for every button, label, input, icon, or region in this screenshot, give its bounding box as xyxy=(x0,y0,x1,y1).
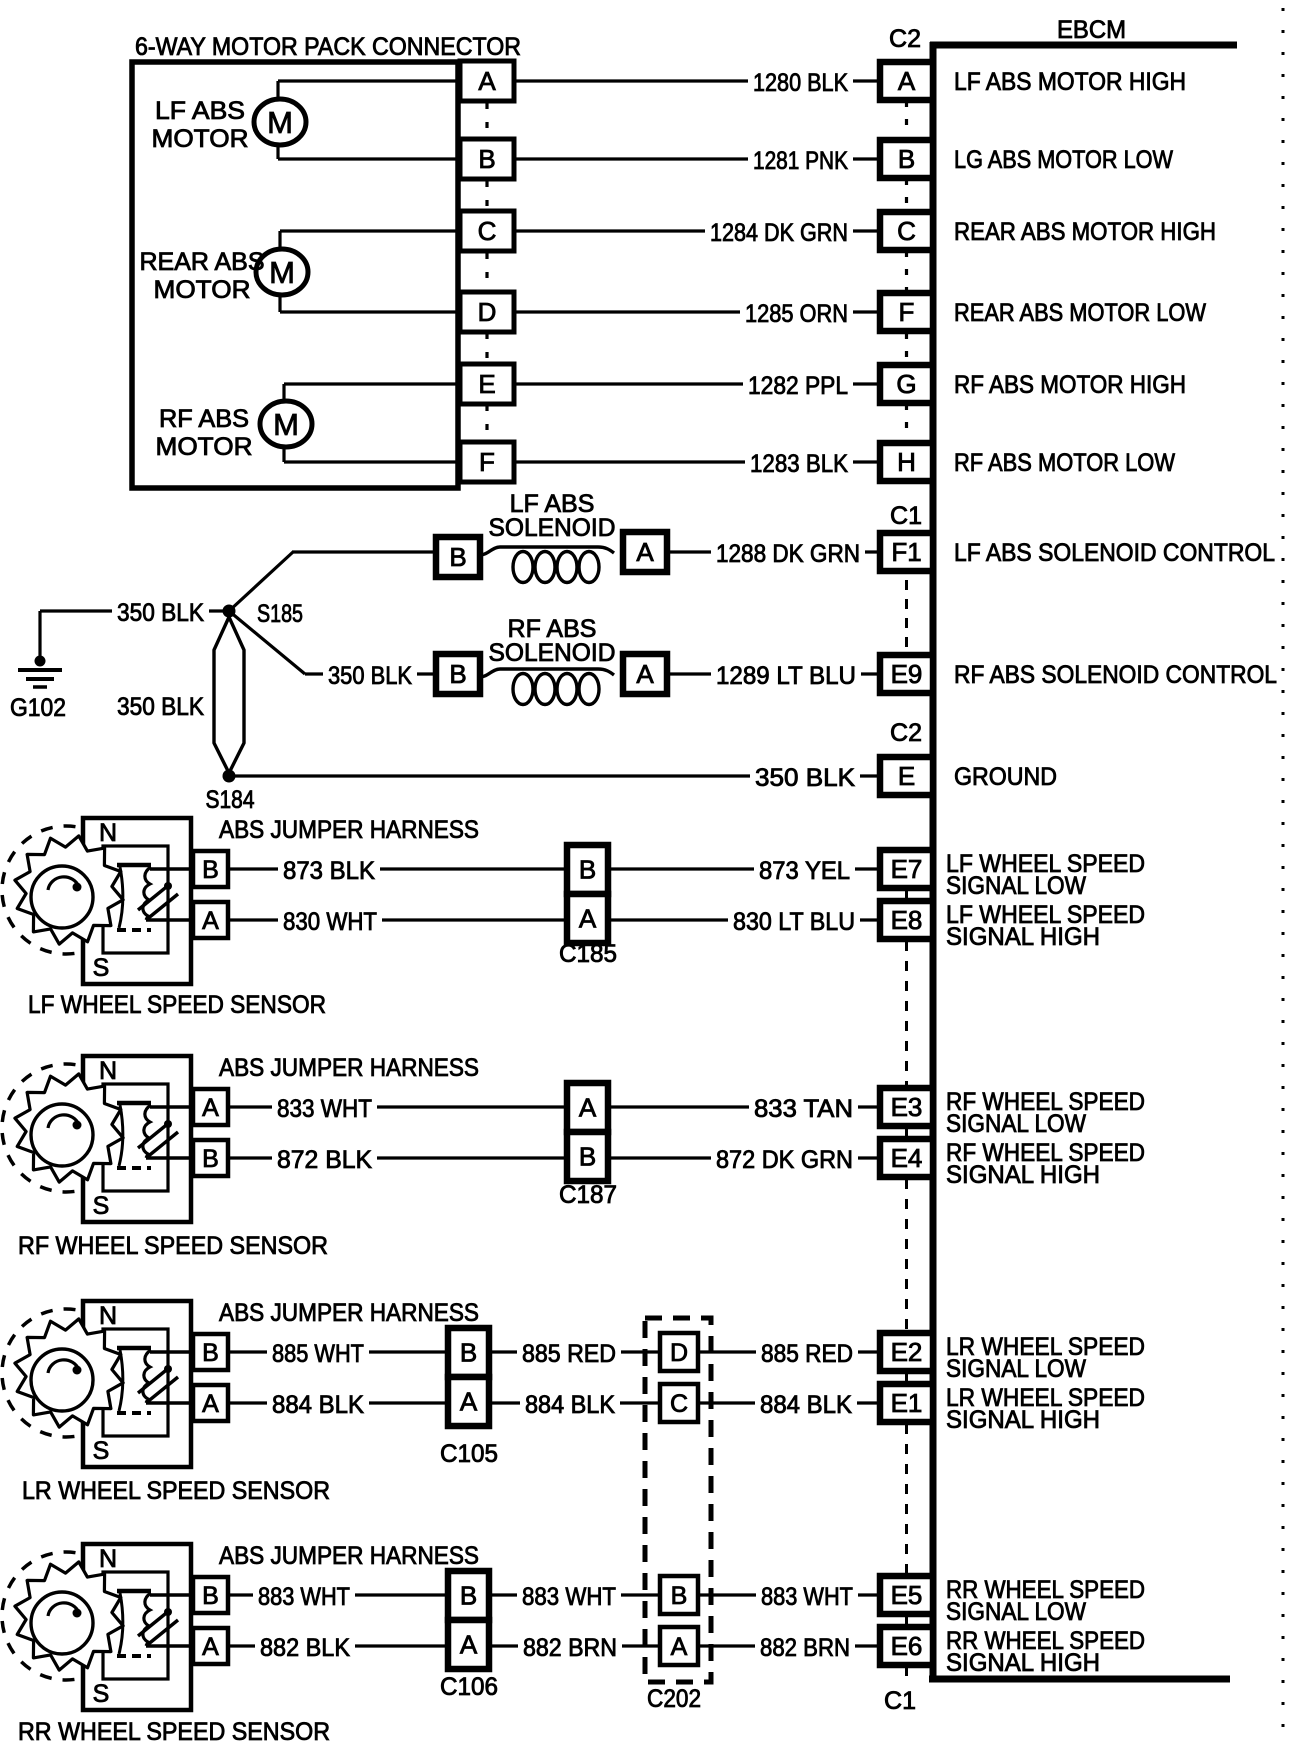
wire 1281 PNK xyxy=(514,147,880,175)
wire motor M3 high xyxy=(284,384,460,402)
wire 873 BLK (LF sensor to C185) xyxy=(228,857,567,885)
svg-text:E6: E6 xyxy=(891,1631,923,1661)
svg-text:883 WHT: 883 WHT xyxy=(258,1583,350,1611)
RR wheel speed sensor xyxy=(2,1544,196,1710)
EBCM pin H xyxy=(880,443,933,481)
svg-text:B: B xyxy=(202,1339,219,1367)
svg-text:884 BLK: 884 BLK xyxy=(272,1391,364,1419)
wire 882 BLK (RR sensor to C106) xyxy=(228,1634,448,1662)
svg-text:SIGNAL HIGH: SIGNAL HIGH xyxy=(946,923,1100,951)
connector C202 dashed outline xyxy=(645,1318,711,1713)
svg-text:SOLENOID: SOLENOID xyxy=(489,514,616,542)
svg-text:1281 PNK: 1281 PNK xyxy=(753,147,848,175)
wire motor M3 low xyxy=(284,446,460,462)
svg-text:REAR ABS: REAR ABS xyxy=(140,248,265,276)
svg-text:B: B xyxy=(202,1145,219,1173)
label RF WHEEL SPEED SIGNAL HIGH xyxy=(946,1139,1145,1189)
label LG ABS MOTOR LOW xyxy=(954,146,1173,174)
svg-text:C2: C2 xyxy=(889,25,921,53)
label LR WHEEL SPEED SENSOR xyxy=(22,1477,330,1505)
svg-text:RF ABS MOTOR LOW: RF ABS MOTOR LOW xyxy=(954,449,1175,477)
svg-text:A: A xyxy=(202,1094,219,1122)
motor M1 LF ABS xyxy=(254,99,306,145)
LF solenoid terminal A xyxy=(623,532,667,572)
svg-text:ABS JUMPER HARNESS: ABS JUMPER HARNESS xyxy=(219,1542,479,1570)
LF ABS solenoid label xyxy=(489,490,616,542)
EBCM pin E8 xyxy=(880,901,933,939)
svg-text:C106: C106 xyxy=(440,1673,498,1701)
dashed separator F1-E9 xyxy=(905,580,908,651)
wire 873 YEL (C185 to EBCM) xyxy=(608,857,880,885)
dashed separator EBCM C2 pins xyxy=(905,101,908,443)
LF wheel speed sensor xyxy=(2,818,196,984)
RF ABS solenoid label xyxy=(489,615,616,667)
connector C202 terminal C xyxy=(660,1384,698,1422)
svg-text:1282 PPL: 1282 PPL xyxy=(748,372,848,400)
wire 872 DK GRN (C187 to EBCM) xyxy=(608,1146,880,1174)
svg-text:B: B xyxy=(449,659,466,689)
EBCM pin E2 xyxy=(880,1333,933,1371)
svg-text:REAR ABS MOTOR HIGH: REAR ABS MOTOR HIGH xyxy=(954,218,1216,246)
LF sensor terminal B xyxy=(193,851,228,887)
svg-text:SIGNAL HIGH: SIGNAL HIGH xyxy=(946,1649,1100,1677)
connector C185 terminal A xyxy=(567,894,608,943)
motor M3 RF ABS xyxy=(260,401,312,447)
svg-text:RF ABS: RF ABS xyxy=(159,405,249,433)
connector C202 terminal B xyxy=(660,1576,698,1614)
svg-text:C1: C1 xyxy=(884,1687,916,1715)
svg-text:872 BLK: 872 BLK xyxy=(277,1146,372,1174)
svg-text:M: M xyxy=(267,105,293,140)
RF ABS jumper harness label xyxy=(219,1054,479,1082)
svg-text:S: S xyxy=(93,1680,110,1708)
svg-text:C105: C105 xyxy=(440,1440,498,1468)
label REAR ABS MOTOR HIGH xyxy=(954,218,1216,246)
svg-text:E4: E4 xyxy=(891,1143,923,1173)
wire 1288 DK GRN xyxy=(667,540,880,568)
svg-text:1284 DK GRN: 1284 DK GRN xyxy=(710,219,848,247)
EBCM pin E5 xyxy=(880,1576,933,1614)
svg-text:E: E xyxy=(478,369,495,399)
svg-text:A: A xyxy=(579,904,597,934)
connector C187 terminal A xyxy=(567,1083,608,1132)
svg-text:873 BLK: 873 BLK xyxy=(283,857,375,885)
LR ABS jumper harness label xyxy=(219,1299,479,1327)
svg-text:882 BRN: 882 BRN xyxy=(523,1634,617,1662)
wire 1289 LT BLU xyxy=(667,662,880,690)
EBCM pin G xyxy=(880,365,933,403)
svg-text:S: S xyxy=(93,1192,110,1220)
motor pack connector pin D xyxy=(460,292,514,332)
dotted page margin line xyxy=(1282,8,1285,1745)
svg-text:A: A xyxy=(636,659,654,689)
svg-text:SIGNAL LOW: SIGNAL LOW xyxy=(946,1598,1086,1626)
svg-text:1283 BLK: 1283 BLK xyxy=(750,450,848,478)
wire 884 BLK (LR sensor to C105) xyxy=(228,1391,448,1419)
svg-text:F1: F1 xyxy=(891,537,921,567)
wire 833 TAN (C187 to EBCM) xyxy=(608,1095,880,1123)
label REAR ABS MOTOR LOW xyxy=(954,299,1206,327)
LR sensor label S xyxy=(93,1437,110,1465)
RF ABS solenoid coil xyxy=(480,669,614,705)
harness loop 350 BLK xyxy=(112,617,244,773)
LF sensor label N xyxy=(99,819,117,847)
motor pack connector pin F xyxy=(460,442,514,482)
svg-text:882 BRN: 882 BRN xyxy=(760,1634,850,1662)
RF solenoid terminal B xyxy=(436,654,480,694)
wire S185 to LF solenoid xyxy=(229,552,436,611)
wire 1284 DK GRN xyxy=(514,219,880,247)
RR ABS jumper harness label xyxy=(219,1542,479,1570)
wire 830 WHT (LF sensor to C185) xyxy=(228,908,567,936)
svg-text:LG ABS MOTOR LOW: LG ABS MOTOR LOW xyxy=(954,146,1173,174)
svg-text:RF WHEEL SPEED SENSOR: RF WHEEL SPEED SENSOR xyxy=(18,1232,328,1260)
svg-text:B: B xyxy=(460,1338,477,1368)
label LF WHEEL SPEED SIGNAL HIGH xyxy=(946,901,1145,951)
svg-text:1280 BLK: 1280 BLK xyxy=(753,69,848,97)
svg-text:350 BLK: 350 BLK xyxy=(755,764,855,792)
svg-text:MOTOR: MOTOR xyxy=(152,125,249,153)
svg-text:C: C xyxy=(670,1390,688,1418)
EBCM C1 connector label (bottom) xyxy=(884,1687,916,1715)
wire 883 WHT (RR sensor to C106) xyxy=(228,1583,448,1611)
RF sensor terminal B xyxy=(193,1140,228,1176)
wire motor M2 high xyxy=(280,231,460,250)
connector C106 terminal A xyxy=(448,1620,489,1669)
LF sensor terminal A xyxy=(193,902,228,938)
svg-text:E9: E9 xyxy=(891,659,923,689)
svg-text:SIGNAL HIGH: SIGNAL HIGH xyxy=(946,1161,1100,1189)
svg-text:833 WHT: 833 WHT xyxy=(277,1095,372,1123)
EBCM pin F xyxy=(880,293,933,331)
connector C105 terminal A xyxy=(448,1377,489,1426)
EBCM label xyxy=(1057,16,1126,44)
svg-text:LF ABS SOLENOID CONTROL: LF ABS SOLENOID CONTROL xyxy=(954,539,1275,567)
motor M2 REAR ABS xyxy=(256,249,308,295)
motor pack connector pin B xyxy=(460,139,514,179)
wire 872 BLK (RF sensor to C187) xyxy=(228,1146,567,1174)
svg-text:E1: E1 xyxy=(891,1388,923,1418)
svg-text:883 WHT: 883 WHT xyxy=(761,1583,853,1611)
label LR WHEEL SPEED SIGNAL HIGH xyxy=(946,1384,1145,1434)
motor M1 LF ABS MOTOR label xyxy=(152,97,249,153)
svg-text:830 LT BLU: 830 LT BLU xyxy=(733,908,855,936)
wire 833 WHT (RF sensor to C187) xyxy=(228,1095,567,1123)
svg-text:N: N xyxy=(99,1057,117,1085)
svg-text:SOLENOID: SOLENOID xyxy=(489,639,616,667)
svg-text:LF ABS: LF ABS xyxy=(155,97,245,125)
svg-text:N: N xyxy=(99,1302,117,1330)
svg-text:S: S xyxy=(93,1437,110,1465)
svg-text:B: B xyxy=(671,1582,688,1610)
EBCM pin A xyxy=(880,62,933,100)
svg-text:LF ABS MOTOR HIGH: LF ABS MOTOR HIGH xyxy=(954,68,1186,96)
dashed separator left connector pins xyxy=(485,103,488,441)
svg-text:B: B xyxy=(579,855,596,885)
wire 1283 BLK xyxy=(514,450,880,478)
svg-text:A: A xyxy=(579,1093,597,1123)
svg-text:872 DK GRN: 872 DK GRN xyxy=(716,1146,853,1174)
label RF WHEEL SPEED SIGNAL LOW xyxy=(946,1088,1145,1138)
svg-text:SIGNAL HIGH: SIGNAL HIGH xyxy=(946,1406,1100,1434)
svg-text:C185: C185 xyxy=(559,940,617,968)
svg-text:1289 LT BLU: 1289 LT BLU xyxy=(716,662,856,690)
svg-text:S184: S184 xyxy=(206,786,255,814)
wire 884 BLK (C202 to EBCM) xyxy=(698,1391,880,1419)
splice S185 xyxy=(223,600,304,628)
svg-text:G: G xyxy=(896,369,916,399)
svg-text:A: A xyxy=(636,537,654,567)
svg-text:350 BLK: 350 BLK xyxy=(328,662,412,690)
svg-text:B: B xyxy=(460,1581,477,1611)
svg-text:D: D xyxy=(670,1339,688,1367)
svg-text:883 WHT: 883 WHT xyxy=(522,1583,616,1611)
LF sensor label S xyxy=(93,954,110,982)
wire 883 WHT (C106 to C202) xyxy=(489,1583,660,1611)
label LF WHEEL SPEED SENSOR xyxy=(28,991,326,1019)
label GROUND xyxy=(954,763,1057,791)
svg-text:MOTOR: MOTOR xyxy=(154,276,251,304)
svg-text:A: A xyxy=(478,66,496,96)
LR sensor terminal B xyxy=(193,1334,228,1370)
EBCM pin B xyxy=(880,140,933,178)
svg-text:B: B xyxy=(478,144,495,174)
svg-text:A: A xyxy=(202,1633,219,1661)
wire 885 WHT (LR sensor to C105) xyxy=(228,1340,448,1368)
wire S185 to RF solenoid 350 BLK xyxy=(229,611,436,690)
svg-text:873 YEL: 873 YEL xyxy=(759,857,850,885)
motor pack connector pin A xyxy=(460,61,514,101)
svg-text:ABS JUMPER HARNESS: ABS JUMPER HARNESS xyxy=(219,1299,479,1327)
RF solenoid terminal A xyxy=(623,654,667,694)
connector C185 label xyxy=(559,940,617,968)
svg-text:C187: C187 xyxy=(559,1181,617,1209)
EBCM pin C xyxy=(880,212,933,250)
svg-text:RF ABS SOLENOID CONTROL: RF ABS SOLENOID CONTROL xyxy=(954,661,1277,689)
svg-text:M: M xyxy=(269,255,295,290)
splice S184 xyxy=(206,770,255,815)
svg-text:SIGNAL LOW: SIGNAL LOW xyxy=(946,872,1086,900)
svg-text:G102: G102 xyxy=(10,694,66,722)
svg-text:B: B xyxy=(202,1582,219,1610)
RR sensor terminal A xyxy=(193,1628,228,1664)
wire 883 WHT (C202 to EBCM) xyxy=(698,1583,880,1611)
svg-text:884 BLK: 884 BLK xyxy=(525,1391,615,1419)
connector C202 terminal A xyxy=(660,1627,698,1665)
svg-text:GROUND: GROUND xyxy=(954,763,1057,791)
ground G102 xyxy=(10,656,66,723)
RF sensor terminal A xyxy=(193,1089,228,1125)
svg-text:A: A xyxy=(202,907,219,935)
svg-text:E: E xyxy=(898,761,915,791)
wire 830 LT BLU (C185 to EBCM) xyxy=(608,908,880,936)
svg-text:885 WHT: 885 WHT xyxy=(272,1340,364,1368)
LF ABS solenoid coil xyxy=(480,547,614,583)
wire 350 BLK ground to EBCM xyxy=(229,764,880,792)
svg-text:M: M xyxy=(273,407,299,442)
wire 885 RED (C105 to C202) xyxy=(489,1340,660,1368)
connector C202 terminal D xyxy=(660,1333,698,1371)
connector C187 label xyxy=(559,1181,617,1209)
connector C185 terminal B xyxy=(567,845,608,894)
label RR WHEEL SPEED SIGNAL LOW xyxy=(946,1576,1145,1626)
svg-text:SIGNAL LOW: SIGNAL LOW xyxy=(946,1355,1086,1383)
EBCM pin E9 xyxy=(880,655,933,693)
svg-text:350 BLK: 350 BLK xyxy=(117,599,204,627)
EBCM pin E6 xyxy=(880,1627,933,1665)
EBCM pin F1 xyxy=(880,533,933,571)
RF sensor label N xyxy=(99,1057,117,1085)
svg-text:E8: E8 xyxy=(891,905,923,935)
svg-text:E2: E2 xyxy=(891,1337,923,1367)
wire 882 BRN (C202 to EBCM) xyxy=(698,1634,880,1662)
EBCM pin E1 xyxy=(880,1384,933,1422)
RR sensor label S xyxy=(93,1680,110,1708)
label RR WHEEL SPEED SENSOR xyxy=(18,1718,330,1746)
svg-text:MOTOR: MOTOR xyxy=(156,433,253,461)
LR wheel speed sensor xyxy=(2,1301,196,1467)
svg-text:1288 DK GRN: 1288 DK GRN xyxy=(716,540,860,568)
svg-text:H: H xyxy=(897,447,916,477)
LR sensor label N xyxy=(99,1302,117,1330)
svg-text:E7: E7 xyxy=(891,854,923,884)
svg-text:833 TAN: 833 TAN xyxy=(754,1095,853,1123)
wire motor M2 low xyxy=(280,294,460,312)
LF ABS jumper harness label xyxy=(219,816,479,844)
wire motor M1 low xyxy=(278,144,460,159)
RR sensor label N xyxy=(99,1545,117,1573)
svg-text:ABS JUMPER HARNESS: ABS JUMPER HARNESS xyxy=(219,1054,479,1082)
svg-text:RR WHEEL SPEED SENSOR: RR WHEEL SPEED SENSOR xyxy=(18,1718,330,1746)
svg-text:N: N xyxy=(99,819,117,847)
motor M2 REAR ABS MOTOR label xyxy=(140,248,265,304)
svg-text:C: C xyxy=(897,216,916,246)
LR sensor terminal A xyxy=(193,1385,228,1421)
svg-text:350 BLK: 350 BLK xyxy=(117,693,204,721)
svg-text:LF WHEEL SPEED SENSOR: LF WHEEL SPEED SENSOR xyxy=(28,991,326,1019)
svg-text:A: A xyxy=(460,1387,478,1417)
connector C105 terminal B xyxy=(448,1328,489,1377)
EBCM C1 connector label xyxy=(890,502,922,530)
svg-text:C1: C1 xyxy=(890,502,922,530)
svg-text:E5: E5 xyxy=(891,1580,923,1610)
label RR WHEEL SPEED SIGNAL HIGH xyxy=(946,1627,1145,1677)
svg-text:1285 ORN: 1285 ORN xyxy=(745,300,848,328)
wire 1285 ORN xyxy=(514,300,880,328)
svg-text:S: S xyxy=(93,954,110,982)
label LF ABS SOLENOID CONTROL xyxy=(954,539,1275,567)
label LR WHEEL SPEED SIGNAL LOW xyxy=(946,1333,1145,1383)
wire motor M1 high xyxy=(278,81,460,100)
svg-text:EBCM: EBCM xyxy=(1057,16,1126,44)
EBCM pin E ground xyxy=(880,757,933,795)
EBCM pin E3 xyxy=(880,1088,933,1126)
svg-text:6-WAY MOTOR PACK CONNECTOR: 6-WAY MOTOR PACK CONNECTOR xyxy=(135,33,521,61)
motor pack connector pin C xyxy=(460,211,514,251)
svg-text:LR WHEEL SPEED SENSOR: LR WHEEL SPEED SENSOR xyxy=(22,1477,330,1505)
label RF ABS SOLENOID CONTROL xyxy=(954,661,1277,689)
connector C187 terminal B xyxy=(567,1132,608,1181)
svg-text:SIGNAL LOW: SIGNAL LOW xyxy=(946,1110,1086,1138)
svg-text:B: B xyxy=(579,1142,596,1172)
wire 1282 PPL xyxy=(514,372,880,400)
svg-text:885 RED: 885 RED xyxy=(761,1340,853,1368)
wire 1280 BLK xyxy=(514,69,880,97)
svg-text:F: F xyxy=(479,447,495,477)
svg-text:C202: C202 xyxy=(647,1685,701,1713)
label RF WHEEL SPEED SENSOR xyxy=(18,1232,328,1260)
label LF ABS MOTOR HIGH xyxy=(954,68,1186,96)
svg-text:B: B xyxy=(898,144,915,174)
svg-text:830 WHT: 830 WHT xyxy=(283,908,377,936)
EBCM pin E4 xyxy=(880,1139,933,1177)
label LF WHEEL SPEED SIGNAL LOW xyxy=(946,850,1145,900)
svg-text:A: A xyxy=(898,66,916,96)
connector C105 label xyxy=(440,1440,498,1468)
EBCM pin E7 xyxy=(880,850,933,888)
svg-text:882 BLK: 882 BLK xyxy=(260,1634,350,1662)
svg-text:B: B xyxy=(202,856,219,884)
6-way motor pack connector title xyxy=(135,33,521,61)
svg-text:S185: S185 xyxy=(257,600,303,628)
RF sensor label S xyxy=(93,1192,110,1220)
svg-text:A: A xyxy=(460,1630,478,1660)
RF wheel speed sensor xyxy=(2,1056,196,1222)
svg-text:C: C xyxy=(478,216,497,246)
EBCM C2 connector label (ground) xyxy=(890,719,922,747)
connector C106 terminal B xyxy=(448,1571,489,1620)
svg-text:RF ABS MOTOR HIGH: RF ABS MOTOR HIGH xyxy=(954,371,1186,399)
6-way motor pack connector box xyxy=(132,62,458,488)
svg-text:A: A xyxy=(671,1633,688,1661)
svg-text:C2: C2 xyxy=(890,719,922,747)
label RF ABS MOTOR HIGH xyxy=(954,371,1186,399)
svg-text:N: N xyxy=(99,1545,117,1573)
motor pack connector pin E xyxy=(460,364,514,404)
wire 350 BLK to ground xyxy=(40,599,229,660)
motor M3 RF ABS MOTOR label xyxy=(156,405,253,461)
RR sensor terminal B xyxy=(193,1577,228,1613)
EBCM module outline xyxy=(929,42,1237,1682)
wire 885 RED (C202 to EBCM) xyxy=(698,1340,880,1368)
LF solenoid terminal B xyxy=(436,537,480,577)
svg-text:E3: E3 xyxy=(891,1092,923,1122)
svg-text:F: F xyxy=(899,297,915,327)
svg-text:D: D xyxy=(478,297,497,327)
svg-text:REAR ABS MOTOR LOW: REAR ABS MOTOR LOW xyxy=(954,299,1206,327)
svg-text:ABS JUMPER HARNESS: ABS JUMPER HARNESS xyxy=(219,816,479,844)
wire 884 BLK (C105 to C202) xyxy=(489,1391,660,1419)
svg-text:884 BLK: 884 BLK xyxy=(760,1391,852,1419)
svg-text:A: A xyxy=(202,1390,219,1418)
dashed separator EBCM C1 pins xyxy=(905,889,908,1678)
label RF ABS MOTOR LOW xyxy=(954,449,1175,477)
EBCM C2 connector label xyxy=(889,25,921,53)
wire 882 BRN (C106 to C202) xyxy=(489,1634,660,1662)
svg-text:B: B xyxy=(449,542,466,572)
connector C106 label xyxy=(440,1673,498,1701)
svg-text:885 RED: 885 RED xyxy=(522,1340,616,1368)
